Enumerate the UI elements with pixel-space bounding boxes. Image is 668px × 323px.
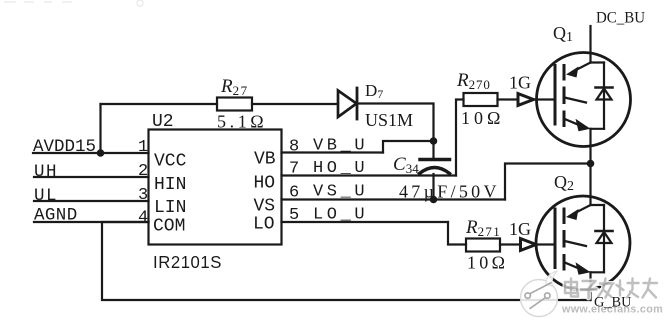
faint scan remnants top-left xyxy=(4,0,143,6)
svg-text:HIN: HIN xyxy=(154,175,186,195)
svg-text:R271: R271 xyxy=(465,217,501,239)
svg-text:2: 2 xyxy=(138,162,148,181)
svg-text:UL: UL xyxy=(34,186,58,206)
wire AVDD15 to pin 1 xyxy=(33,152,149,154)
watermark Chinese text (drawn strokes) xyxy=(565,279,657,299)
wire vertical branch up to R27 xyxy=(99,104,101,153)
svg-text:10Ω: 10Ω xyxy=(461,108,504,128)
svg-text:COM: COM xyxy=(153,217,185,237)
capacitor C34 xyxy=(420,141,450,200)
wire pin 5 LO xyxy=(282,221,449,223)
IC U2 body xyxy=(149,130,282,245)
svg-text:5.1Ω: 5.1Ω xyxy=(217,112,267,132)
wire UL to pin 3 xyxy=(34,200,149,202)
svg-text:LIN: LIN xyxy=(154,198,186,218)
svg-text:HO_U: HO_U xyxy=(313,159,368,178)
svg-text:VS: VS xyxy=(254,197,276,217)
svg-text:LO: LO xyxy=(253,215,275,235)
svg-text:1: 1 xyxy=(138,138,148,157)
wire R27 to D7 anode xyxy=(252,103,338,105)
transistor Q2 xyxy=(536,196,630,300)
resistor R271 xyxy=(466,239,500,252)
svg-text:4: 4 xyxy=(138,209,148,228)
wire pin 6 VS xyxy=(282,198,506,200)
svg-text:8: 8 xyxy=(289,138,299,157)
svg-text:VB: VB xyxy=(254,150,276,170)
svg-text:10Ω: 10Ω xyxy=(467,253,508,273)
svg-text:1G: 1G xyxy=(509,219,531,239)
node junction C34 bottom / VS xyxy=(430,196,438,204)
wire VB up-over to C34 node xyxy=(383,141,434,153)
svg-text:HO: HO xyxy=(254,174,276,194)
node junction VB / D7 / C34 xyxy=(430,137,438,145)
svg-text:US1M: US1M xyxy=(365,110,413,130)
wire HO up to R270 xyxy=(456,100,464,176)
svg-text:G_BU: G_BU xyxy=(594,295,632,311)
wire R271 to Q2 gate xyxy=(500,243,536,245)
svg-text:VS_U: VS_U xyxy=(313,183,368,202)
wire VS up-over to Q1 source node xyxy=(505,164,591,200)
svg-text:C34: C34 xyxy=(393,154,419,176)
svg-text:3: 3 xyxy=(138,186,148,205)
svg-text:LO_U: LO_U xyxy=(313,206,368,225)
svg-text:U2: U2 xyxy=(152,112,174,132)
svg-text:IR2101S: IR2101S xyxy=(153,252,222,272)
resistor R27 xyxy=(217,98,252,111)
wire Q2 drain from junction xyxy=(589,164,591,206)
wire UH to pin 2 xyxy=(34,176,149,178)
svg-text:D7: D7 xyxy=(365,81,383,101)
watermark logo circle xyxy=(521,271,558,317)
svg-text:UH: UH xyxy=(34,162,58,182)
wire to R27 left xyxy=(101,103,218,105)
wire DC_BU to Q1 drain xyxy=(589,26,591,63)
node junction Q1 source / Q2 drain / VS xyxy=(587,160,595,168)
svg-text:R27: R27 xyxy=(220,76,249,98)
wire pin 4 COM return to bottom rail xyxy=(102,222,591,300)
svg-text:Q1: Q1 xyxy=(553,23,573,45)
wire pin 7 HO xyxy=(282,174,457,176)
svg-text:R270: R270 xyxy=(456,70,491,92)
svg-text:VCC: VCC xyxy=(154,152,187,172)
svg-text:1G: 1G xyxy=(509,73,531,93)
wire LO down to R271 xyxy=(448,222,466,245)
svg-text:VB_U: VB_U xyxy=(313,137,368,156)
svg-text:Q2: Q2 xyxy=(554,172,574,194)
node junction AVDD15 branch xyxy=(97,149,105,157)
wire R270 to Q1 gate xyxy=(498,98,534,100)
diode D7 xyxy=(338,88,357,119)
wire AGND to pin 4 xyxy=(34,221,149,223)
wire D7 cathode to C34 top xyxy=(357,104,434,142)
gate arrow into Q1 xyxy=(518,94,534,106)
svg-text:DC_BU: DC_BU xyxy=(596,10,645,27)
gate arrow into Q2 xyxy=(521,239,537,251)
resistor R270 xyxy=(464,93,498,106)
wire pin 8 VB xyxy=(282,151,384,153)
transistor Q1 xyxy=(533,53,631,164)
